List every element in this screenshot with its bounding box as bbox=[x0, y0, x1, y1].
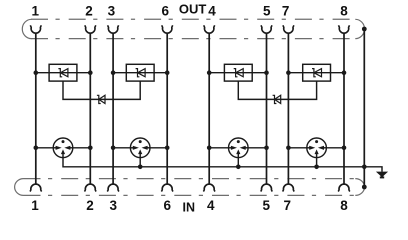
wire link box1-box2 bbox=[63, 81, 140, 99]
bottom bus lower line bbox=[24, 194, 356, 196]
suppressor U2 bbox=[126, 64, 154, 81]
bottom bus right cap bbox=[355, 179, 364, 196]
arrester F4 bbox=[307, 138, 327, 158]
node branch row bbox=[34, 146, 347, 151]
svg-text:2: 2 bbox=[85, 3, 93, 18]
node box row bbox=[34, 70, 347, 75]
terminal 4 bottom bbox=[203, 184, 215, 191]
svg-text:2: 2 bbox=[86, 198, 94, 213]
wire 5 bbox=[266, 33, 268, 184]
terminal 7 bottom bbox=[283, 184, 295, 191]
svg-text:6: 6 bbox=[161, 3, 169, 18]
diode V2 bbox=[273, 95, 281, 103]
top bus right cap bbox=[355, 19, 364, 38]
suppressor U4 bbox=[303, 64, 331, 81]
svg-text:7: 7 bbox=[284, 198, 292, 213]
wire 4 bbox=[208, 33, 210, 184]
wire box1 leads bbox=[36, 72, 91, 74]
wire gdt2 stub bbox=[139, 158, 141, 167]
wire PE right vertical bbox=[363, 29, 365, 187]
diode V1 bbox=[97, 95, 105, 103]
terminal 1 bottom bbox=[30, 184, 42, 191]
wire 1 bbox=[35, 33, 37, 184]
wire 3 bbox=[112, 33, 114, 184]
arrester F2 bbox=[130, 138, 150, 158]
svg-text:OUT: OUT bbox=[179, 2, 207, 17]
ground bbox=[376, 172, 388, 179]
terminal 8 top bbox=[339, 25, 350, 33]
top bus left cap bbox=[22, 19, 31, 38]
wire branch 3 bbox=[209, 147, 266, 149]
terminal 2 bottom bbox=[84, 184, 96, 191]
svg-text:6: 6 bbox=[163, 198, 171, 213]
wire gdt3 stub bbox=[237, 158, 239, 167]
wire box4 leads bbox=[288, 72, 344, 74]
svg-text:7: 7 bbox=[282, 3, 290, 18]
wire branch 1 bbox=[36, 147, 91, 149]
wire collector bbox=[63, 158, 382, 172]
svg-text:1: 1 bbox=[32, 3, 40, 18]
suppressor U1 bbox=[49, 64, 77, 81]
terminal 5 top bbox=[261, 25, 272, 33]
terminal 4 top bbox=[204, 25, 215, 33]
terminal 6 bottom bbox=[161, 184, 173, 191]
terminal 3 top bbox=[108, 25, 119, 33]
arrester F1 bbox=[53, 138, 73, 158]
arrester F3 bbox=[229, 138, 249, 158]
node bus taps bbox=[362, 27, 367, 32]
bottom bus left cap bbox=[15, 179, 24, 196]
suppressor U3 bbox=[224, 64, 252, 81]
terminal 2 top bbox=[85, 25, 96, 33]
wire 6 bbox=[166, 33, 168, 184]
terminal 3 bottom bbox=[107, 184, 119, 191]
top bus upper line bbox=[31, 18, 356, 20]
top bus lower line bbox=[31, 38, 356, 40]
terminal 5 bottom bbox=[261, 184, 273, 191]
svg-text:3: 3 bbox=[110, 198, 118, 213]
node collector row bbox=[138, 165, 367, 170]
svg-text:4: 4 bbox=[207, 198, 215, 213]
svg-text:5: 5 bbox=[263, 198, 271, 213]
wire gdt4 stub bbox=[316, 158, 318, 167]
svg-text:3: 3 bbox=[108, 3, 116, 18]
svg-text:8: 8 bbox=[340, 198, 348, 213]
terminal 6 top bbox=[162, 25, 173, 33]
terminal 7 top bbox=[283, 25, 294, 33]
wire box2 leads bbox=[113, 72, 167, 74]
wire branch 2 bbox=[113, 147, 167, 149]
wire link box3-box4 bbox=[238, 81, 316, 99]
wire 8 bbox=[343, 33, 345, 184]
svg-text:IN: IN bbox=[183, 200, 196, 214]
terminal 1 top bbox=[30, 25, 41, 33]
wire 7 bbox=[287, 33, 289, 184]
svg-text:1: 1 bbox=[31, 198, 39, 213]
svg-text:4: 4 bbox=[208, 3, 216, 18]
terminal 8 bottom bbox=[338, 184, 350, 191]
bottom bus upper line bbox=[24, 178, 356, 180]
wire 2 bbox=[89, 33, 91, 184]
wire box3 leads bbox=[209, 72, 266, 74]
wire branch 4 bbox=[288, 147, 344, 149]
svg-text:5: 5 bbox=[263, 3, 271, 18]
svg-text:8: 8 bbox=[340, 3, 348, 18]
